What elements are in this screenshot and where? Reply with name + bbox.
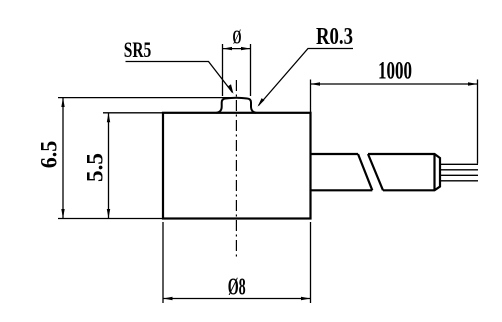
6.5 arrows [61, 98, 64, 107]
1000 arrows [311, 82, 321, 85]
diameter top arrows [223, 47, 233, 50]
arrowheads [61, 47, 477, 300]
body outline [163, 113, 311, 219]
leader SR5 [126, 62, 233, 93]
dimension 5.5 [58, 113, 163, 219]
dimension 1000 [311, 80, 478, 164]
wires [440, 164, 478, 181]
boss (SR5 dome) [217, 98, 257, 113]
dimension diameter 8 [163, 222, 311, 303]
svg-text:SR5: SR5 [124, 37, 152, 62]
svg-text:5.5: 5.5 [83, 153, 108, 182]
centerline [235, 80, 237, 258]
dimension 6.5 [58, 98, 231, 219]
svg-text:R0.3: R0.3 [316, 24, 353, 50]
R0.3 leader arrow [258, 98, 265, 107]
cable segment 1 [311, 154, 373, 190]
cable segment 2 [368, 154, 440, 190]
svg-text:Ø8: Ø8 [228, 274, 246, 301]
svg-text:Ø: Ø [233, 27, 242, 49]
svg-text:6.5: 6.5 [37, 141, 62, 169]
SR5 leader arrow [228, 84, 233, 94]
dimension diameter top [223, 44, 251, 96]
leader R0.3 [259, 49, 354, 106]
diameter 8 arrows [163, 297, 173, 300]
svg-text:1000: 1000 [378, 57, 412, 84]
5.5 arrows [107, 113, 110, 122]
